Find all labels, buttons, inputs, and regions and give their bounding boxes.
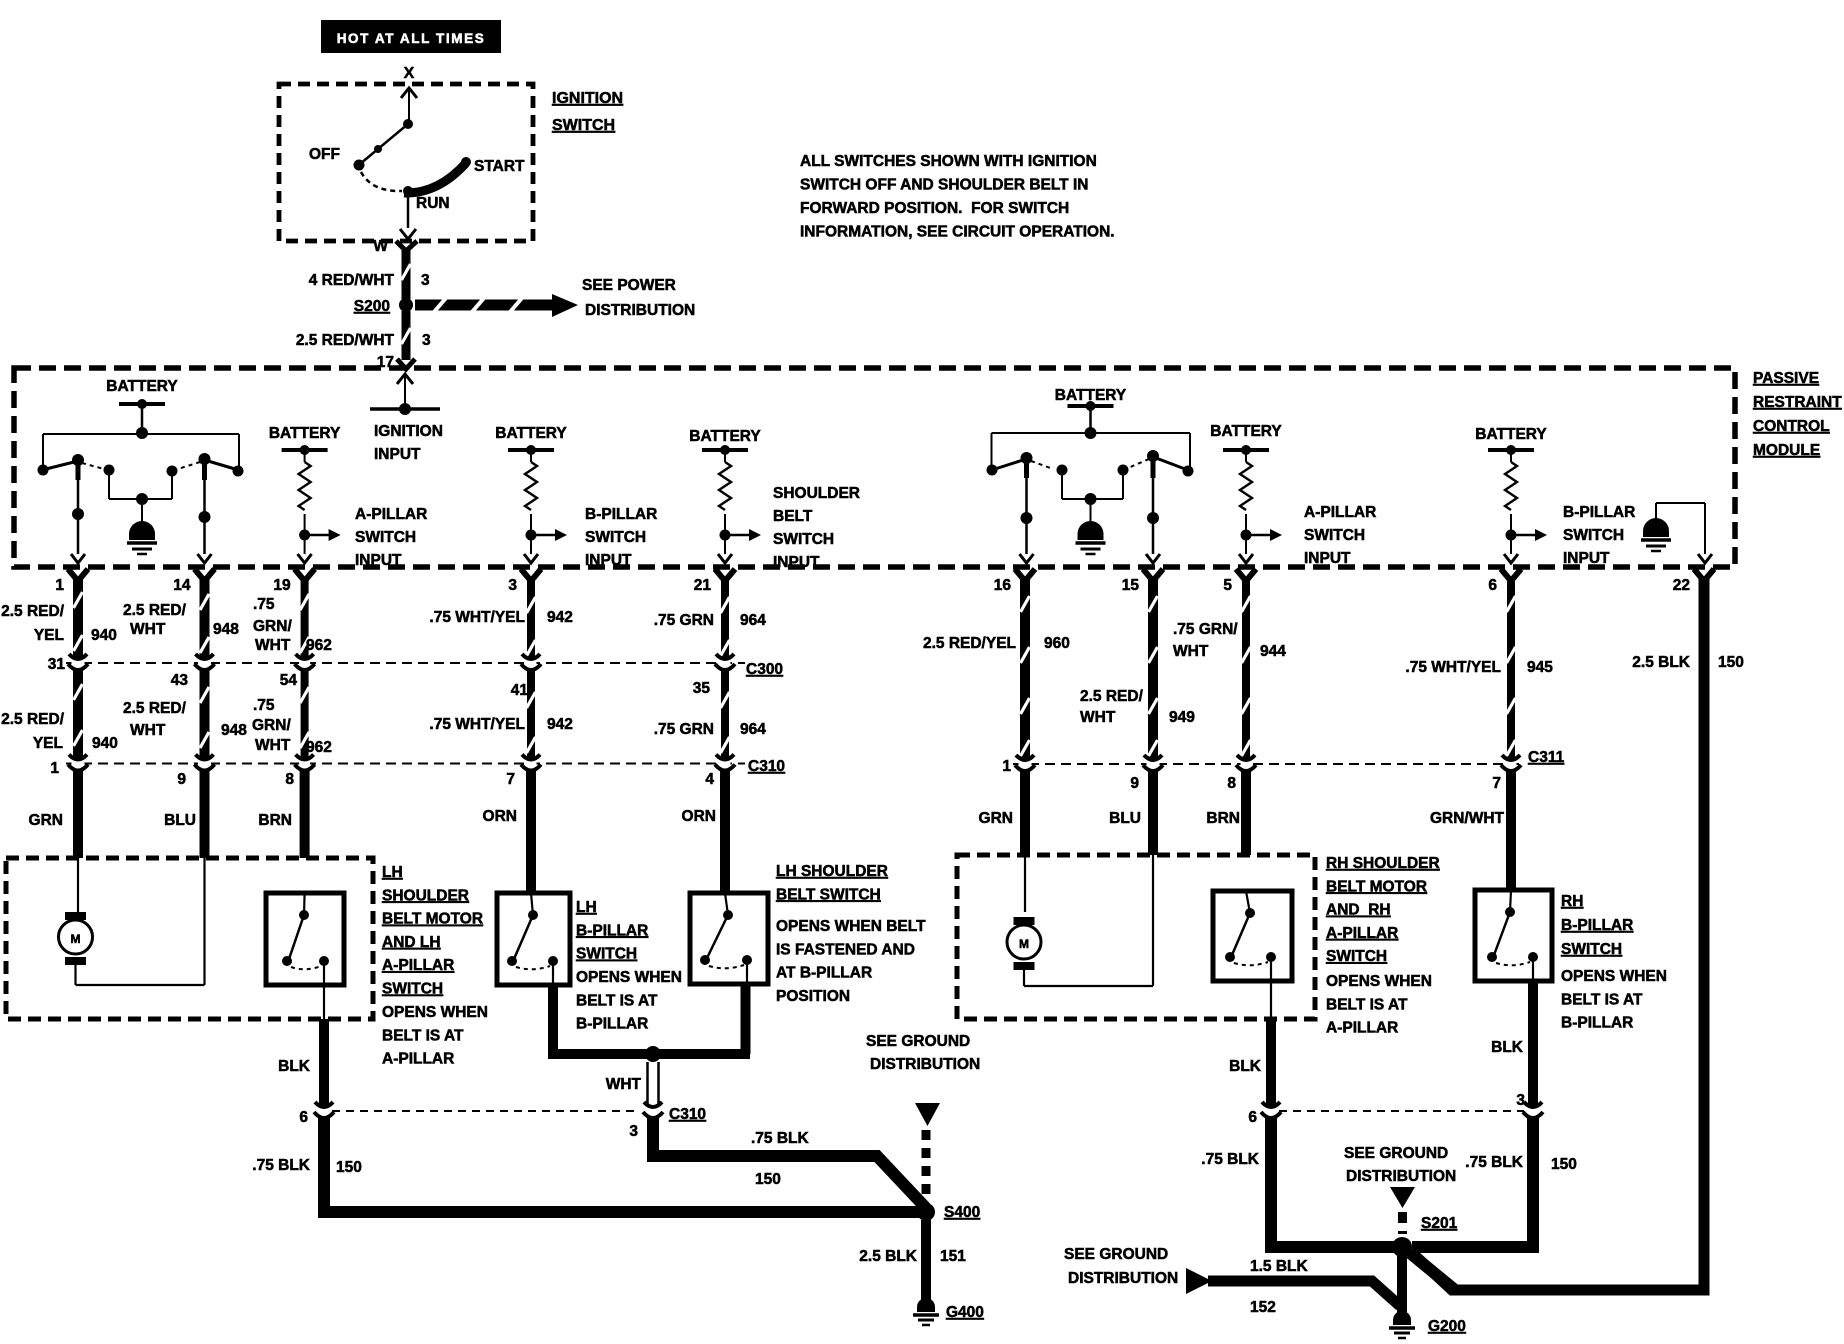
svg-text:2.5 RED/YEL: 2.5 RED/YEL [923, 635, 1016, 652]
svg-text:INPUT: INPUT [1304, 550, 1351, 567]
svg-text:S200: S200 [354, 298, 390, 315]
svg-text:.75 GRN: .75 GRN [654, 612, 714, 629]
svg-text:W: W [373, 238, 388, 255]
svg-text:FORWARD POSITION. FOR SWITCH: FORWARD POSITION. FOR SWITCH [800, 200, 1069, 217]
svg-text:INPUT: INPUT [585, 552, 632, 569]
svg-text:964: 964 [740, 612, 766, 629]
svg-text:B-PILLAR: B-PILLAR [576, 1016, 648, 1033]
svg-text:RH SHOULDER: RH SHOULDER [1326, 855, 1440, 872]
svg-text:OPENS WHEN: OPENS WHEN [1561, 968, 1667, 985]
svg-text:G200: G200 [1428, 1318, 1466, 1335]
svg-text:GRN: GRN [979, 810, 1013, 827]
svg-text:MODULE: MODULE [1753, 442, 1820, 459]
svg-text:S201: S201 [1421, 1215, 1458, 1232]
svg-text:SWITCH OFF AND SHOULDER BELT I: SWITCH OFF AND SHOULDER BELT IN [800, 177, 1088, 194]
svg-text:OPENS WHEN: OPENS WHEN [382, 1004, 488, 1021]
svg-text:OFF: OFF [309, 146, 340, 163]
svg-text:2.5 BLK: 2.5 BLK [859, 1248, 918, 1265]
svg-text:7: 7 [506, 771, 515, 788]
svg-text:2.5 RED/: 2.5 RED/ [1080, 688, 1144, 705]
svg-text:A-PILLAR: A-PILLAR [382, 1051, 454, 1068]
svg-text:964: 964 [740, 721, 766, 738]
svg-text:IGNITION: IGNITION [374, 423, 443, 440]
svg-text:SWITCH: SWITCH [1563, 527, 1624, 544]
svg-text:INPUT: INPUT [1563, 550, 1610, 567]
svg-text:BATTERY: BATTERY [1475, 426, 1547, 443]
svg-text:WHT: WHT [606, 1076, 642, 1093]
svg-text:GRN/: GRN/ [253, 618, 292, 635]
svg-text:POSITION: POSITION [776, 988, 850, 1005]
svg-text:3: 3 [422, 332, 431, 349]
svg-text:BATTERY: BATTERY [495, 425, 567, 442]
svg-text:M: M [1019, 937, 1029, 951]
svg-text:1: 1 [50, 760, 59, 777]
svg-text:ORN: ORN [682, 808, 716, 825]
svg-text:3: 3 [629, 1123, 638, 1140]
svg-text:S400: S400 [944, 1204, 980, 1221]
svg-text:8: 8 [1227, 775, 1236, 792]
svg-text:G400: G400 [946, 1304, 984, 1321]
svg-text:BELT IS AT: BELT IS AT [382, 1027, 464, 1044]
svg-text:3: 3 [508, 577, 517, 594]
svg-text:2.5 RED/: 2.5 RED/ [1, 711, 65, 728]
svg-text:962: 962 [306, 637, 332, 654]
svg-text:X: X [404, 65, 415, 82]
svg-text:INPUT: INPUT [355, 552, 402, 569]
svg-text:SEE GROUND: SEE GROUND [866, 1033, 970, 1050]
svg-text:948: 948 [213, 621, 239, 638]
svg-text:HOT AT ALL TIMES: HOT AT ALL TIMES [337, 31, 486, 46]
svg-text:ALL SWITCHES SHOWN WITH IGNITI: ALL SWITCHES SHOWN WITH IGNITION [800, 153, 1097, 170]
svg-text:SWITCH: SWITCH [576, 946, 637, 963]
svg-text:150: 150 [755, 1171, 781, 1188]
svg-text:.75: .75 [253, 596, 275, 613]
svg-text:GRN/WHT: GRN/WHT [1430, 810, 1505, 827]
svg-text:SWITCH: SWITCH [1304, 527, 1365, 544]
svg-text:BLK: BLK [1491, 1039, 1524, 1056]
svg-text:.75 WHT/YEL: .75 WHT/YEL [1405, 659, 1501, 676]
svg-text:BELT IS AT: BELT IS AT [576, 992, 658, 1009]
svg-text:SWITCH: SWITCH [773, 531, 834, 548]
svg-text:SEE POWER: SEE POWER [582, 277, 676, 294]
svg-text:WHT: WHT [255, 637, 291, 654]
svg-text:B-PILLAR: B-PILLAR [585, 506, 657, 523]
svg-text:6: 6 [299, 1109, 308, 1126]
svg-text:C300: C300 [746, 661, 783, 678]
svg-text:GRN/: GRN/ [252, 717, 291, 734]
svg-text:DISTRIBUTION: DISTRIBUTION [1346, 1168, 1456, 1185]
svg-text:BELT IS AT: BELT IS AT [1561, 991, 1643, 1008]
svg-text:SEE GROUND: SEE GROUND [1064, 1246, 1168, 1263]
svg-text:YEL: YEL [33, 735, 63, 752]
svg-text:YEL: YEL [34, 627, 64, 644]
svg-text:SWITCH: SWITCH [1326, 948, 1387, 965]
svg-text:PASSIVE: PASSIVE [1753, 370, 1819, 387]
svg-text:151: 151 [940, 1248, 966, 1265]
svg-text:DISTRIBUTION: DISTRIBUTION [585, 302, 695, 319]
svg-text:BLK: BLK [1229, 1058, 1262, 1075]
svg-text:35: 35 [693, 680, 711, 697]
svg-text:INFORMATION, SEE CIRCUIT OPERA: INFORMATION, SEE CIRCUIT OPERATION. [800, 224, 1115, 241]
svg-text:BATTERY: BATTERY [689, 428, 761, 445]
svg-text:OPENS WHEN: OPENS WHEN [1326, 973, 1432, 990]
svg-text:962: 962 [306, 739, 332, 756]
svg-text:22: 22 [1673, 577, 1690, 594]
svg-text:949: 949 [1169, 709, 1195, 726]
svg-text:150: 150 [336, 1159, 362, 1176]
svg-text:14: 14 [173, 577, 191, 594]
svg-text:SWITCH: SWITCH [382, 981, 443, 998]
svg-text:BLU: BLU [164, 812, 196, 829]
svg-text:INPUT: INPUT [773, 554, 820, 571]
svg-text:SHOULDER: SHOULDER [382, 887, 469, 904]
svg-text:31: 31 [48, 656, 66, 673]
svg-text:RH: RH [1561, 893, 1583, 910]
svg-text:2.5 BLK: 2.5 BLK [1632, 654, 1691, 671]
svg-text:LH SHOULDER: LH SHOULDER [776, 863, 888, 880]
svg-text:1.5 BLK: 1.5 BLK [1250, 1258, 1309, 1275]
svg-text:ORN: ORN [483, 808, 517, 825]
svg-text:BELT IS AT: BELT IS AT [1326, 996, 1408, 1013]
svg-text:945: 945 [1527, 659, 1553, 676]
svg-text:9: 9 [1130, 775, 1139, 792]
svg-text:C310: C310 [748, 758, 785, 775]
svg-text:.75 BLK: .75 BLK [751, 1130, 810, 1147]
svg-text:6: 6 [1488, 577, 1497, 594]
svg-text:16: 16 [994, 577, 1012, 594]
svg-text:GRN: GRN [29, 812, 63, 829]
svg-text:BATTERY: BATTERY [106, 378, 178, 395]
svg-text:BELT: BELT [773, 508, 813, 525]
svg-text:WHT: WHT [130, 621, 166, 638]
svg-text:150: 150 [1551, 1156, 1577, 1173]
svg-text:BELT MOTOR: BELT MOTOR [382, 911, 483, 928]
svg-text:.75 WHT/YEL: .75 WHT/YEL [429, 609, 525, 626]
svg-text:M: M [71, 932, 81, 946]
svg-text:1: 1 [1002, 758, 1011, 775]
svg-text:START: START [474, 158, 525, 175]
svg-text:6: 6 [1248, 1109, 1257, 1126]
svg-text:15: 15 [1122, 577, 1140, 594]
svg-text:54: 54 [280, 672, 298, 689]
svg-text:3: 3 [421, 272, 430, 289]
svg-text:BLU: BLU [1109, 810, 1141, 827]
svg-text:5: 5 [1223, 577, 1232, 594]
svg-text:BATTERY: BATTERY [1210, 423, 1282, 440]
svg-text:940: 940 [92, 735, 118, 752]
svg-text:B-PILLAR: B-PILLAR [1563, 504, 1635, 521]
svg-text:A-PILLAR: A-PILLAR [355, 506, 427, 523]
svg-text:942: 942 [547, 609, 573, 626]
svg-text:.75 WHT/YEL: .75 WHT/YEL [429, 716, 525, 733]
svg-text:DISTRIBUTION: DISTRIBUTION [1068, 1270, 1178, 1287]
svg-text:LH: LH [382, 864, 403, 881]
svg-text:.75: .75 [253, 697, 275, 714]
svg-text:A-PILLAR: A-PILLAR [382, 957, 454, 974]
svg-text:8: 8 [285, 771, 294, 788]
svg-text:152: 152 [1250, 1299, 1276, 1316]
svg-text:SWITCH: SWITCH [355, 529, 416, 546]
svg-text:BELT SWITCH: BELT SWITCH [776, 886, 881, 903]
svg-text:942: 942 [547, 716, 573, 733]
svg-text:OPENS WHEN: OPENS WHEN [576, 969, 682, 986]
svg-text:BATTERY: BATTERY [269, 425, 341, 442]
svg-text:B-PILLAR: B-PILLAR [576, 922, 648, 939]
svg-text:BELT MOTOR: BELT MOTOR [1326, 878, 1427, 895]
svg-text:INPUT: INPUT [374, 446, 421, 463]
svg-text:RUN: RUN [416, 195, 450, 212]
svg-text:948: 948 [221, 722, 247, 739]
svg-text:WHT: WHT [1173, 643, 1209, 660]
svg-text:41: 41 [511, 682, 529, 699]
svg-text:B-PILLAR: B-PILLAR [1561, 1015, 1633, 1032]
svg-text:.75 BLK: .75 BLK [252, 1157, 311, 1174]
svg-text:2.5 RED/: 2.5 RED/ [1, 603, 65, 620]
svg-text:944: 944 [1260, 643, 1286, 660]
svg-text:2.5 RED/: 2.5 RED/ [123, 602, 187, 619]
svg-text:CONTROL: CONTROL [1753, 418, 1830, 435]
svg-text:.75 GRN/: .75 GRN/ [1173, 621, 1238, 638]
svg-text:.75 GRN: .75 GRN [654, 721, 714, 738]
svg-text:4 RED/WHT: 4 RED/WHT [309, 272, 395, 289]
svg-text:WHT: WHT [130, 722, 166, 739]
svg-text:AND LH: AND LH [382, 934, 441, 951]
svg-text:RESTRAINT: RESTRAINT [1753, 394, 1842, 411]
svg-text:WHT: WHT [255, 737, 291, 754]
svg-text:BRN: BRN [1206, 810, 1240, 827]
svg-text:43: 43 [171, 672, 189, 689]
svg-text:OPENS WHEN BELT: OPENS WHEN BELT [776, 918, 926, 935]
svg-text:A-PILLAR: A-PILLAR [1326, 1020, 1398, 1037]
svg-text:9: 9 [177, 771, 186, 788]
svg-text:AT B-PILLAR: AT B-PILLAR [776, 965, 872, 982]
svg-text:.75 BLK: .75 BLK [1201, 1151, 1260, 1168]
svg-text:IS FASTENED AND: IS FASTENED AND [776, 941, 915, 958]
svg-text:4: 4 [705, 771, 714, 788]
svg-text:SHOULDER: SHOULDER [773, 485, 860, 502]
svg-text:WHT: WHT [1080, 709, 1116, 726]
svg-text:SEE GROUND: SEE GROUND [1344, 1145, 1448, 1162]
svg-text:A-PILLAR: A-PILLAR [1304, 504, 1376, 521]
svg-text:DISTRIBUTION: DISTRIBUTION [870, 1056, 980, 1073]
svg-text:SWITCH: SWITCH [552, 117, 615, 134]
svg-text:IGNITION: IGNITION [552, 90, 623, 107]
svg-text:SWITCH: SWITCH [585, 529, 646, 546]
svg-text:LH: LH [576, 899, 597, 916]
svg-text:AND RH: AND RH [1326, 902, 1391, 919]
svg-text:940: 940 [91, 627, 117, 644]
svg-text:SWITCH: SWITCH [1561, 941, 1622, 958]
svg-text:960: 960 [1044, 635, 1070, 652]
svg-text:BLK: BLK [278, 1058, 311, 1075]
svg-text:A-PILLAR: A-PILLAR [1326, 925, 1398, 942]
svg-text:BRN: BRN [258, 812, 292, 829]
svg-text:C311: C311 [1528, 749, 1565, 766]
svg-text:.75 BLK: .75 BLK [1465, 1154, 1524, 1171]
svg-text:150: 150 [1718, 654, 1744, 671]
svg-text:2.5 RED/WHT: 2.5 RED/WHT [296, 332, 395, 349]
svg-text:19: 19 [273, 577, 291, 594]
svg-text:3: 3 [1516, 1092, 1525, 1109]
svg-text:7: 7 [1492, 775, 1501, 792]
svg-text:2.5 RED/: 2.5 RED/ [123, 700, 187, 717]
svg-text:C310: C310 [669, 1106, 706, 1123]
svg-text:21: 21 [694, 577, 712, 594]
svg-text:B-PILLAR: B-PILLAR [1561, 917, 1633, 934]
svg-text:1: 1 [55, 577, 64, 594]
